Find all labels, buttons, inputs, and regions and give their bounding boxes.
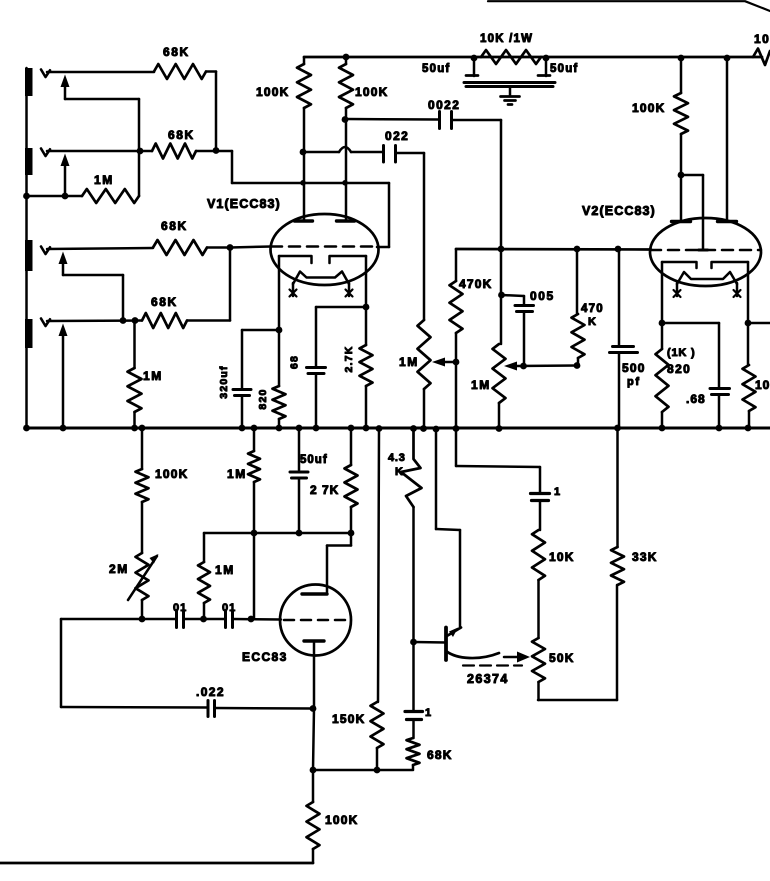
svg-text:V1(ECC83): V1(ECC83) xyxy=(207,197,281,211)
svg-text:470: 470 xyxy=(581,303,604,315)
svg-text:100K: 100K xyxy=(155,467,189,481)
svg-text:100K: 100K xyxy=(325,813,359,827)
svg-text:50K: 50K xyxy=(549,651,575,665)
svg-text:100K: 100K xyxy=(632,101,666,115)
svg-text:26374: 26374 xyxy=(467,672,509,686)
svg-text:2M: 2M xyxy=(109,562,129,576)
svg-text:68K: 68K xyxy=(168,128,195,142)
svg-text:K: K xyxy=(588,316,598,328)
svg-text:820: 820 xyxy=(257,388,269,409)
svg-text:10: 10 xyxy=(754,32,770,46)
svg-text:10K /1W: 10K /1W xyxy=(480,33,533,45)
svg-text:.022: .022 xyxy=(196,685,225,699)
svg-text:10K: 10K xyxy=(549,550,575,564)
svg-text:1M: 1M xyxy=(399,355,419,369)
svg-text:1M: 1M xyxy=(471,378,491,392)
svg-text:(1K ): (1K ) xyxy=(667,347,695,359)
svg-text:50uf: 50uf xyxy=(300,454,328,466)
svg-text:10K: 10K xyxy=(755,378,770,392)
svg-text:820: 820 xyxy=(667,362,691,376)
svg-text:1M: 1M xyxy=(94,173,114,187)
svg-text:500: 500 xyxy=(622,361,646,375)
svg-text:2.7K: 2.7K xyxy=(343,346,355,373)
svg-text:1M: 1M xyxy=(143,369,163,383)
svg-text:68: 68 xyxy=(289,355,301,369)
svg-text:100K: 100K xyxy=(355,85,389,99)
svg-text:1: 1 xyxy=(554,486,562,498)
svg-text:1M: 1M xyxy=(227,467,247,481)
svg-text:2 7K: 2 7K xyxy=(310,483,339,497)
svg-text:005: 005 xyxy=(530,289,555,303)
svg-text:022: 022 xyxy=(385,129,409,143)
svg-text:pf: pf xyxy=(627,376,641,388)
svg-text:4.3: 4.3 xyxy=(388,452,406,464)
svg-text:470K: 470K xyxy=(459,277,493,291)
svg-text:1: 1 xyxy=(425,707,433,719)
svg-text:68K: 68K xyxy=(161,219,188,233)
svg-text:01: 01 xyxy=(173,602,187,614)
svg-text:320uf: 320uf xyxy=(218,365,230,398)
svg-text:150K: 150K xyxy=(332,712,366,726)
svg-text:68K: 68K xyxy=(427,748,453,762)
svg-text:K: K xyxy=(395,466,405,478)
svg-text:100K: 100K xyxy=(256,85,290,99)
svg-text:68K: 68K xyxy=(163,45,190,59)
svg-text:01: 01 xyxy=(222,602,236,614)
svg-text:33K: 33K xyxy=(632,550,658,564)
svg-text:1M: 1M xyxy=(215,563,235,577)
svg-text:.68: .68 xyxy=(686,392,706,406)
svg-text:ECC83: ECC83 xyxy=(242,650,288,664)
svg-text:68K: 68K xyxy=(151,295,178,309)
svg-text:V2(ECC83): V2(ECC83) xyxy=(582,204,656,218)
svg-text:50uf: 50uf xyxy=(422,63,450,75)
svg-text:50uf: 50uf xyxy=(550,63,578,75)
svg-text:0022: 0022 xyxy=(428,98,460,112)
